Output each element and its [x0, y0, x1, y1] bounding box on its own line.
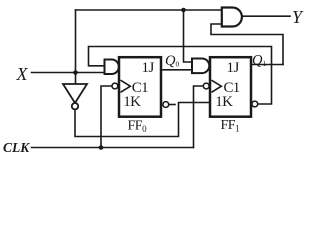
wire Q0 output to AND gate U2 bottom input [162, 69, 192, 71]
wire inverter output Xbar line to FF1 1K [75, 103, 210, 137]
node CLK junction dot [99, 145, 104, 150]
wire X input horizontal [32, 72, 105, 74]
svg-text:1J: 1J [142, 60, 155, 76]
wire FF0 C1 to CLK [101, 86, 112, 148]
svg-text:1J: 1J [227, 60, 240, 76]
FF1 clock edge triangle [212, 80, 222, 92]
svg-text:1K: 1K [123, 94, 141, 110]
AND gate U2 (J1 = X AND Q0) [192, 59, 209, 74]
wire inverter input stub [75, 73, 77, 85]
wire FF1 C1 to CLK [194, 86, 204, 148]
wire AND gate U3 bottom stub to line A [211, 24, 283, 65]
FF0 C1 bubble [112, 83, 118, 89]
wire CLK horizontal [32, 147, 194, 149]
wire Q1-bar line B feedback to AND gate U1 [89, 47, 272, 105]
FF1 Q-bar bubble [252, 101, 258, 107]
FF0 clock edge triangle [121, 80, 131, 92]
AND gate U1 (J0 = X AND Q1-bar) [105, 60, 119, 75]
svg-text:1K: 1K [215, 94, 233, 110]
wire AND gate U3 output to Y [242, 15, 290, 17]
FF1 C1 bubble [203, 83, 209, 89]
node top-rail junction dot [181, 8, 186, 13]
svg-text:X: X [16, 64, 29, 84]
wire Q0-bar stub [169, 104, 175, 106]
FF0 Q-bar bubble [163, 102, 169, 108]
node X junction dot [73, 70, 78, 75]
flip-flop FF1 box [210, 57, 251, 116]
wire riser from top rail to AND gate U2 top input [184, 10, 193, 62]
svg-text:CLK: CLK [3, 140, 30, 155]
wire top rail X [76, 9, 222, 11]
AND gate U3 (Y = X AND Q1) [222, 8, 242, 27]
inverter G1 (Xbar) [63, 84, 87, 109]
flip-flop FF0 box [119, 57, 161, 116]
wire X riser to top rail [75, 10, 77, 73]
wire Q1 output horizontal [251, 64, 283, 66]
